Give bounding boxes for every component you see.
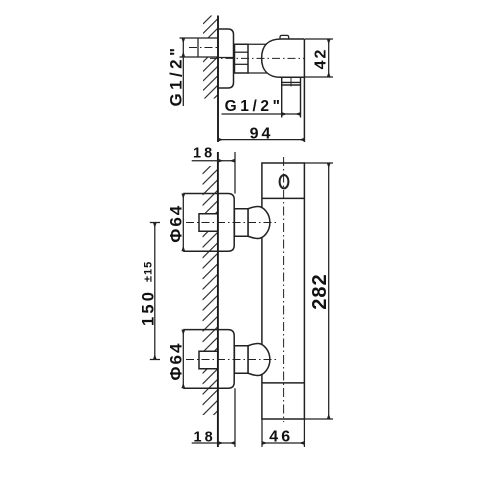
svg-text:Φ64: Φ64 — [167, 204, 186, 243]
svg-text:G1/2": G1/2" — [167, 45, 186, 107]
svg-text:42: 42 — [313, 48, 330, 70]
svg-text:G1/2": G1/2" — [225, 98, 284, 115]
svg-text:Φ64: Φ64 — [167, 342, 186, 381]
svg-text:18: 18 — [194, 430, 216, 446]
svg-text:94: 94 — [250, 125, 274, 142]
svg-text:282: 282 — [309, 273, 331, 309]
svg-text:18: 18 — [193, 146, 215, 162]
svg-text:±15: ±15 — [143, 261, 155, 282]
svg-text:150: 150 — [139, 289, 157, 326]
svg-text:46: 46 — [269, 428, 293, 445]
